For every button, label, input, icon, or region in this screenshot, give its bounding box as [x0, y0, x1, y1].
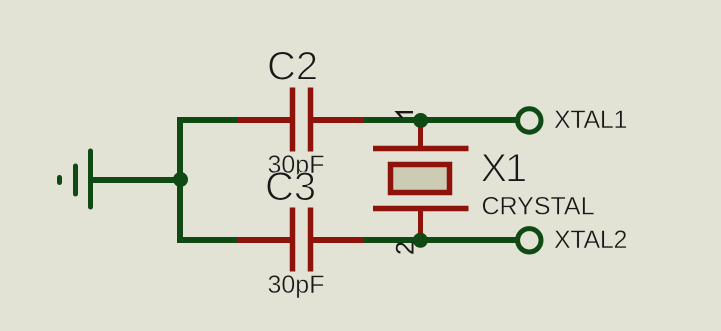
terminal XTAL2 — [518, 229, 541, 252]
svg-text:CRYSTAL: CRYSTAL — [482, 193, 595, 221]
svg-text:XTAL1: XTAL1 — [554, 106, 627, 134]
node A junction dot — [173, 172, 188, 187]
terminal XTAL1 — [518, 109, 541, 132]
wire ground to node A — [92, 177, 179, 183]
svg-text:X1: X1 — [481, 147, 526, 191]
wire top left — [177, 117, 240, 123]
node 2 junction dot — [413, 233, 428, 248]
svg-text:C2: C2 — [267, 45, 318, 89]
svg-text:30pF: 30pF — [268, 271, 325, 299]
ground — [60, 151, 91, 207]
wire bottom left — [177, 237, 240, 243]
capacitor C2 — [237, 88, 364, 152]
crystal X1 — [373, 120, 469, 240]
svg-text:XTAL2: XTAL2 — [554, 226, 627, 254]
svg-text:C3: C3 — [265, 165, 316, 209]
wire bottom right — [362, 237, 516, 243]
pin 1 — [397, 112, 413, 118]
node 1 junction dot — [413, 113, 428, 128]
wire left vertical — [177, 120, 183, 240]
wire top right — [362, 117, 516, 123]
capacitor C3 — [237, 208, 364, 272]
